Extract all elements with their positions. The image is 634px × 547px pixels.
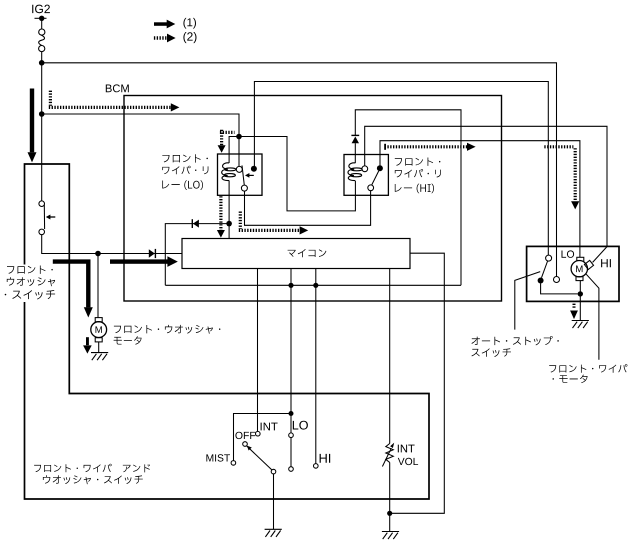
label auto-stop line1	[471, 336, 558, 345]
signal route to wiper motor	[544, 145, 573, 148]
node junction IG2/washer-rail	[39, 111, 45, 117]
ground switch	[265, 528, 282, 530]
relay HI blade	[372, 171, 379, 185]
wire HI brush diagonal	[593, 247, 607, 263]
wire relay LO coil bottom to microcomputer	[228, 181, 230, 239]
node junction relay LO feed	[236, 134, 242, 140]
label (1)	[183, 18, 196, 29]
auto-stop blade	[542, 261, 548, 278]
label switch box line2	[43, 475, 143, 484]
wire motor bottom / ground	[579, 280, 581, 320]
label washer switch line3	[5, 290, 55, 299]
arrow flow washer switch to motor	[53, 259, 91, 307]
front wiper and washer switch box (L-shape)	[25, 164, 430, 499]
washer switch actuator arrow	[49, 216, 56, 218]
wire diode branch to rail y285	[165, 224, 229, 286]
contact LO upper	[289, 433, 294, 438]
signal route relay HI output	[384, 144, 386, 150]
label relay HI line1	[395, 158, 441, 166]
auto-stop contact B	[554, 277, 560, 283]
auto-stop common contact	[538, 278, 544, 284]
wiper switch pivot	[243, 442, 248, 447]
relay HI bottom contact	[368, 185, 374, 191]
wire microcomputer pin INT	[257, 269, 259, 432]
relay HI box	[344, 155, 388, 196]
label HI motor	[601, 259, 611, 267]
washer switch contact top	[39, 201, 45, 207]
relay HI coil	[348, 163, 355, 181]
variable resistor INT VOL	[386, 444, 394, 463]
node junction IG2/top-rail	[39, 60, 45, 66]
wire fuse to junction	[41, 52, 43, 201]
label INT	[261, 423, 278, 431]
wire relay outputs joined y225	[245, 191, 371, 226]
label IG2	[32, 5, 50, 14]
fusible link FL	[39, 29, 45, 35]
label auto-stop line2	[472, 348, 511, 357]
label washer switch line2	[7, 277, 55, 286]
washer motor M	[95, 318, 102, 322]
label (2)	[183, 32, 196, 43]
wire rail y285	[165, 284, 461, 286]
wire microcomputer pin HI	[315, 269, 317, 464]
arrow flow IG2 down	[30, 89, 34, 153]
auto-stop contact A	[546, 255, 552, 261]
label INT VOL line1	[398, 445, 415, 453]
relay LO box	[218, 154, 263, 195]
leader wiper motor label	[586, 274, 599, 360]
wire microcomputer pin LO/MIST	[290, 269, 292, 433]
legend arrow (1)	[154, 22, 167, 26]
ground washer motor	[91, 352, 108, 354]
relay LO bottom contact	[241, 185, 247, 191]
leader auto-stop label	[515, 272, 540, 330]
label OFF	[235, 432, 255, 439]
relay LO blade	[242, 165, 244, 185]
label front wiper motor line1	[549, 364, 627, 373]
node junction motor ground	[578, 291, 583, 296]
node IG2 terminal	[35, 17, 47, 19]
washer switch contact bottom	[39, 229, 45, 235]
label INT VOL line2	[398, 458, 418, 465]
relay LO actuator arrow	[249, 174, 254, 176]
wire rail y126 relay HI contact to motor HI	[365, 126, 607, 246]
signal route relay LO coil to microcomputer	[219, 196, 222, 230]
wire relay LO to relay HI coil (routed)	[239, 137, 355, 211]
signal route relay LO output	[239, 212, 242, 230]
legend arrow (2)	[154, 36, 167, 40]
wire to washer motor	[97, 254, 99, 318]
wiper motor HI brush	[584, 260, 593, 269]
diode relay HI	[352, 137, 359, 144]
wire microcomputer pin INT VOL	[389, 269, 391, 444]
label microcomputer	[288, 249, 327, 257]
wire rail y114 to relay LO	[42, 114, 239, 166]
wiper motor M	[577, 257, 584, 261]
label LO motor	[561, 250, 574, 257]
BCM box	[124, 96, 502, 302]
diode washer line	[149, 249, 155, 258]
wire auto-stop common to motor ground node	[541, 284, 578, 294]
wiper switch common contact	[271, 469, 276, 474]
label relay LO line1	[162, 154, 208, 162]
node junction INT VOL / ground	[387, 511, 392, 516]
contact OFF/INT	[255, 431, 260, 436]
wire rail y141 relay HI NO-contact to motor top	[380, 141, 580, 258]
label gap on box edge	[2, 265, 58, 303]
relay LO NO contact	[251, 166, 257, 172]
label relay HI line2	[395, 169, 441, 178]
wire MIST branch	[234, 414, 292, 461]
node junction rail285/LO-wire	[288, 283, 293, 288]
arrow flow washer motor ground	[86, 337, 89, 345]
relay HI contact	[362, 166, 368, 172]
contact LO lower	[289, 467, 294, 472]
diode microcomputer line	[193, 220, 199, 228]
wire HI diode to coil	[354, 143, 356, 163]
node junction coil/diode	[226, 221, 232, 227]
relay LO coil	[222, 163, 229, 181]
wiper switch blade	[247, 446, 273, 470]
label relay LO line3	[162, 180, 203, 190]
label switch box line1	[34, 464, 150, 473]
microcomputer box	[182, 239, 410, 269]
washer switch blade	[43, 205, 45, 229]
contact HI	[314, 464, 319, 469]
wire rail y81 relay LO NO-contact to auto-stop	[254, 82, 548, 256]
microcomputer right pin wire to INT VOL	[390, 253, 445, 513]
label relay LO line2	[162, 166, 208, 175]
signal route BCM input	[49, 91, 52, 106]
wire HI diode rail y110	[355, 110, 461, 285]
wire blade to ground	[273, 474, 275, 529]
contact MIST	[231, 461, 236, 466]
label M wiper	[576, 266, 582, 273]
node junction MIST branch	[289, 411, 294, 416]
label relay HI line3	[395, 184, 434, 194]
arrow flow wiper motor ground	[573, 304, 576, 310]
ground wiper motor	[572, 320, 589, 322]
relay HI NO contact	[377, 165, 383, 171]
label MIST	[206, 454, 230, 461]
label M washer	[96, 326, 102, 333]
label BCM	[106, 84, 129, 92]
relay LO contact	[236, 166, 242, 172]
wire relay LO coil feed	[229, 137, 239, 164]
label washer motor line2	[114, 336, 142, 344]
label washer motor line1	[114, 325, 220, 334]
label LO switch	[293, 421, 308, 430]
ground INT VOL	[382, 531, 399, 533]
arrow flow washer switch to microcomputer	[110, 259, 169, 263]
label HI switch	[320, 454, 331, 463]
signal route into relay LO coil	[220, 131, 235, 134]
label washer switch line1	[7, 265, 53, 273]
node junction rail285/HI-wire	[313, 283, 318, 288]
node junction washer motor tap	[95, 251, 101, 257]
wire top rail y63 to wiper motor switch	[42, 63, 557, 277]
wiper motor assembly box	[527, 246, 619, 301]
wire IG2 vertical main	[41, 18, 43, 29]
wire washer switch to microcomputer rail y253	[42, 235, 182, 254]
label front wiper motor line2	[553, 375, 588, 383]
